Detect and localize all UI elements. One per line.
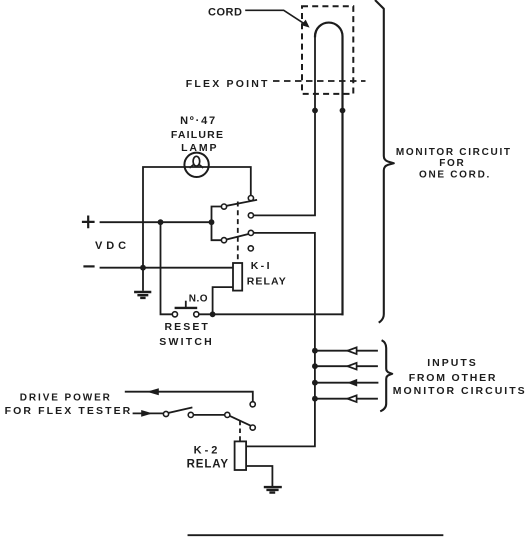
svg-text:INPUTS: INPUTS	[427, 357, 478, 369]
svg-text:MONITOR CIRCUIT: MONITOR CIRCUIT	[396, 147, 512, 158]
svg-text:CORD: CORD	[208, 7, 242, 19]
svg-text:RELAY: RELAY	[247, 276, 287, 288]
svg-text:K-2: K-2	[194, 444, 221, 456]
svg-text:FLEX POINT: FLEX POINT	[186, 78, 270, 90]
svg-text:SWITCH: SWITCH	[159, 336, 214, 348]
svg-text:RELAY: RELAY	[187, 459, 229, 471]
svg-text:K-I: K-I	[251, 260, 272, 272]
svg-text:ONE CORD.: ONE CORD.	[419, 169, 491, 180]
svg-text:FOR: FOR	[439, 158, 465, 169]
svg-text:FROM OTHER: FROM OTHER	[409, 372, 498, 384]
svg-text:Nº·47: Nº·47	[180, 115, 217, 127]
svg-text:MONITOR CIRCUITS: MONITOR CIRCUITS	[393, 385, 525, 397]
svg-text:FAILURE: FAILURE	[171, 129, 224, 141]
svg-text:RESET: RESET	[164, 321, 210, 333]
svg-text:FOR FLEX TESTER: FOR FLEX TESTER	[5, 405, 133, 417]
svg-text:N.O: N.O	[189, 294, 208, 305]
svg-text:LAMP: LAMP	[181, 142, 218, 154]
svg-text:VDC: VDC	[95, 240, 130, 252]
svg-text:DRIVE POWER: DRIVE POWER	[20, 392, 112, 403]
